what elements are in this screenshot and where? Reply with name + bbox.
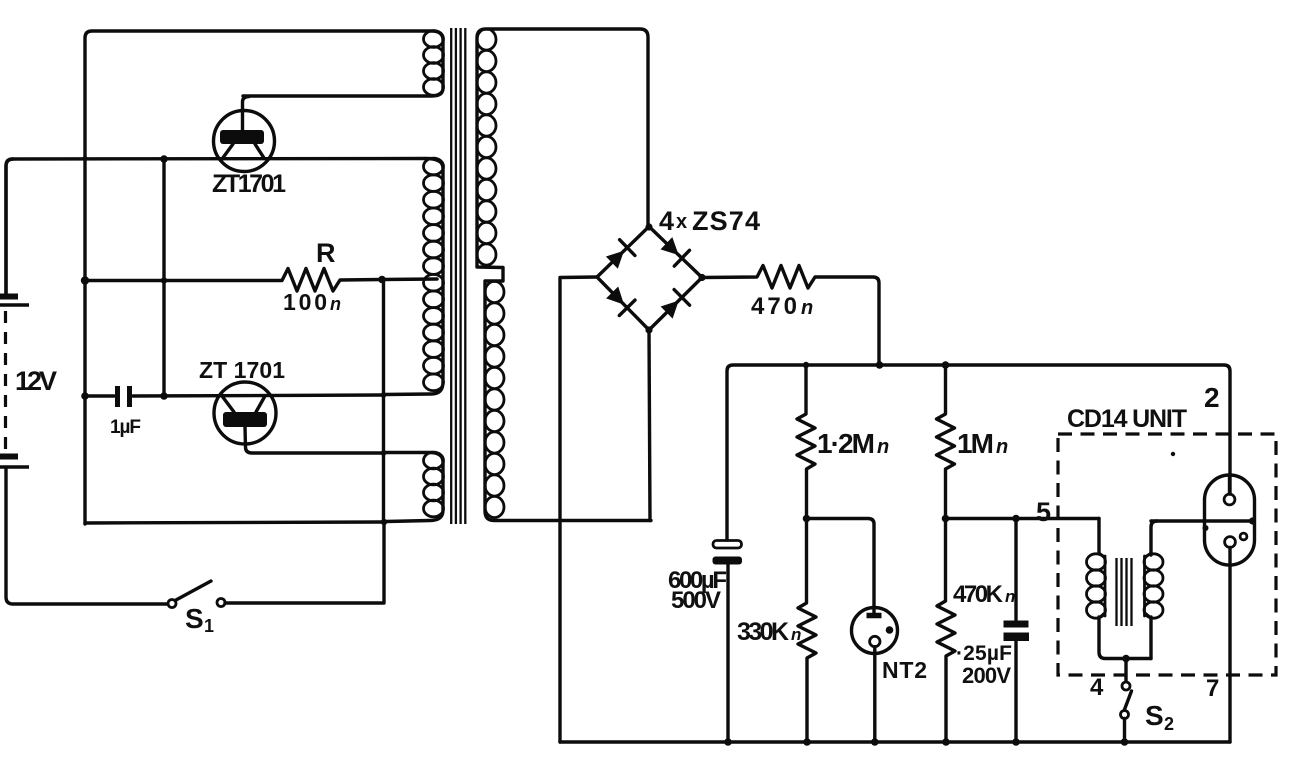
node bridge top vertex <box>645 223 652 230</box>
wire battery rail to C1 <box>85 394 114 397</box>
diode D2 (top-right edge) arrow <box>661 237 679 255</box>
node bottom bus junction at 600uF <box>724 738 732 746</box>
wire base bias vertical x=164 <box>162 159 165 396</box>
node bridge bottom vertex <box>645 326 652 333</box>
svg-text:ZS74: ZS74 <box>692 206 760 236</box>
resistor 1.2M with leads <box>797 365 815 519</box>
capacitor C1 1uF left plate <box>115 386 120 407</box>
resistor 1M with leads <box>937 365 955 519</box>
svg-text:330K: 330K <box>737 618 789 646</box>
svg-text:n: n <box>877 436 889 458</box>
node tap junction R / feedback vertical <box>378 276 386 284</box>
switch S2 blade <box>1125 691 1132 710</box>
battery 12V top lead <box>6 159 13 294</box>
node junction 1.2M top <box>803 362 809 368</box>
node junction 1uF branch <box>81 392 89 400</box>
node dot on tube left wall <box>1203 525 1209 531</box>
transistor Q2 collector leg <box>256 396 265 412</box>
transformer T1 secondary winding loops upper <box>477 29 496 50</box>
node top-left corner junction on battery feed <box>82 156 87 161</box>
transistor Q2 bottom lead <box>245 427 384 453</box>
node junction 470ohm / top bus <box>876 361 884 369</box>
node bottom bus junction at NT2 <box>871 738 879 746</box>
node bridge right vertex <box>698 274 705 281</box>
svg-text:S: S <box>185 603 204 634</box>
wire C2 bottom lead <box>726 564 729 742</box>
decorative speck inside CD14 box <box>1171 452 1175 456</box>
wire C3 bottom lead <box>1014 641 1017 742</box>
wire S1 to riser <box>225 522 384 603</box>
wire trigger transformer primary down lead <box>1097 519 1100 554</box>
capacitor C2 600uF top plate (outline) <box>713 541 742 549</box>
transistor Q1 ZT1701 circle <box>214 111 275 172</box>
wire bridge left vertex to negative rail <box>560 277 597 742</box>
terminal 4 contact circle <box>1122 682 1130 690</box>
node dot on tube right wall <box>1249 517 1256 524</box>
neon NT2 bottom electrode ring <box>870 636 880 646</box>
transformer T1 secondary winding loops lower <box>485 281 504 302</box>
diode D3 (left-bottom edge) cathode tick <box>619 300 635 315</box>
svg-text:S: S <box>1145 700 1164 731</box>
svg-text:·25µF: ·25µF <box>956 642 1012 665</box>
svg-text:ZT 1701: ZT 1701 <box>199 357 285 383</box>
neon NT2 side dot <box>886 626 894 634</box>
transistor Q1 collector leg <box>255 144 264 158</box>
flash tube trigger wire across envelope <box>1151 519 1253 522</box>
wire top rail and primary winding section 1 with exit to Q1 <box>85 31 443 524</box>
svg-text:1: 1 <box>204 616 214 636</box>
switch S1 left contact <box>168 600 176 608</box>
node junction battery rail / R wire <box>81 276 89 284</box>
svg-text:1µF: 1µF <box>110 417 141 438</box>
transistor Q2 ZT1701 circle <box>214 382 276 444</box>
svg-text:470: 470 <box>751 293 797 320</box>
wire feedback vertical x=384 <box>382 280 385 523</box>
transformer T1 core laminations <box>450 28 452 524</box>
svg-text:2: 2 <box>1164 714 1174 734</box>
transistor Q2 base bar <box>223 412 267 427</box>
node bottom bus junction at 330K <box>803 738 811 746</box>
node junction feedback bottom / S1 riser <box>381 519 387 525</box>
transistor Q1 emitter leg <box>222 144 233 159</box>
svg-text:12V: 12V <box>15 366 57 396</box>
battery 12V cell 1 short thick plate <box>0 294 18 300</box>
wire trigger level (node 5) <box>946 517 1100 520</box>
svg-text:4: 4 <box>1090 674 1104 701</box>
svg-text:2: 2 <box>1204 382 1220 413</box>
wire C1 to Q2 top and feedback vertical <box>133 395 384 396</box>
capacitor C3 .25uF bottom plate <box>1004 633 1030 642</box>
trigger transformer T2 right winding <box>1145 553 1151 557</box>
flash tube cathode electrode ring <box>1225 537 1236 548</box>
svg-text:n: n <box>996 436 1008 458</box>
wire primary section3 top tap <box>384 453 443 522</box>
svg-text:ZT1701: ZT1701 <box>212 170 286 198</box>
resistor 470K with leads <box>937 519 955 743</box>
bridge rectifier 4xZS74 diamond <box>597 227 702 331</box>
svg-text:CD14 UNIT: CD14 UNIT <box>1067 405 1187 433</box>
resistor R 100ohm with leads <box>85 269 382 292</box>
trigger transformer T2 left winding <box>1099 553 1105 557</box>
wire NT2 top branch <box>807 519 875 616</box>
svg-text:n: n <box>1005 587 1015 606</box>
wire tap into primary winding <box>382 277 437 281</box>
node junction 1.2M / NT2 branch <box>803 515 811 523</box>
flash tube envelope (capsule) <box>1205 475 1255 565</box>
node bottom bus junction at .25uF <box>1012 738 1020 746</box>
neon NT2 top electrode bar <box>867 613 882 619</box>
wire NT2 bottom lead <box>873 647 876 742</box>
trigger transformer T2 core <box>1115 558 1117 626</box>
switch S1 right contact <box>217 599 225 607</box>
wire bridge bottom vertex to secondary bottom <box>649 330 650 521</box>
node junction base vertical / R wire <box>161 277 167 283</box>
resistor 330K with leads <box>798 519 816 743</box>
wire battery feed to primary section 2 top (y=158) <box>6 159 443 395</box>
flash tube auxiliary small ring <box>1240 533 1247 540</box>
svg-text:7: 7 <box>1206 675 1219 702</box>
wire anode lead from top bus (terminal 2) <box>1228 475 1231 494</box>
svg-text:n: n <box>801 297 813 319</box>
wire cathode lead to bottom bus (terminal 7) <box>1228 547 1231 742</box>
svg-text:5: 5 <box>1036 497 1051 527</box>
diode D3 (left-bottom edge) arrow <box>606 287 624 305</box>
wire S2 to bottom bus <box>1123 719 1126 743</box>
wire T2 right winding top lead to tube trigger <box>1151 521 1157 555</box>
svg-text:4: 4 <box>659 206 674 236</box>
wire oscillator bottom return <box>85 522 384 523</box>
svg-text:n: n <box>791 625 801 644</box>
capacitor C2 600uF bottom plate (solid) <box>713 557 743 565</box>
resistor 470 ohm with leads <box>702 266 879 366</box>
capacitor C1 1uF right plate <box>127 386 132 407</box>
node bottom bus junction at 470K <box>942 738 950 746</box>
battery 12V dashed middle <box>4 311 7 450</box>
transistor Q2 emitter leg <box>222 396 234 412</box>
flash tube anode top electrode ring <box>1224 494 1235 505</box>
svg-text:x: x <box>676 211 687 233</box>
wire negative bottom bus <box>560 740 1230 743</box>
capacitor C3 .25uF top plate <box>1004 621 1029 628</box>
transformer T1 primary winding loops section 2 <box>424 158 444 175</box>
neon tube NT2 envelope <box>852 608 898 654</box>
wire T2 left winding bottom lead <box>1099 617 1151 659</box>
node junction base-line vertical top <box>160 155 168 163</box>
svg-text:470K: 470K <box>953 581 1004 608</box>
diode D4 (bottom-right edge) arrow <box>661 301 679 319</box>
diode D1 (left-top edge) arrow <box>606 251 624 269</box>
node bottom bus junction at S2 <box>1121 738 1129 746</box>
svg-text:1·2M: 1·2M <box>817 428 875 459</box>
node junction feedback / Q2 top wire <box>381 392 387 398</box>
transistor Q1 base bar <box>220 130 264 144</box>
svg-text:500V: 500V <box>671 587 721 614</box>
wire positive top bus <box>727 365 1230 540</box>
svg-text:NT2: NT2 <box>882 657 927 683</box>
svg-text:R: R <box>316 238 336 268</box>
wire common lead to terminal 4 <box>1124 659 1127 682</box>
svg-text:1M: 1M <box>957 428 994 459</box>
node junction 1M top <box>942 361 950 369</box>
CD14 unit dashed enclosure <box>1058 434 1276 675</box>
node junction 1M / 470K / trigger line <box>942 515 950 523</box>
battery 12V cell 1 long thin plate <box>0 303 29 306</box>
node junction T2 windings common <box>1122 655 1130 663</box>
battery bottom lead to S1 <box>6 469 167 604</box>
node junction .25uF top <box>1012 515 1020 523</box>
wire C3 top lead <box>1014 519 1017 621</box>
wire T2 right winding bottom lead <box>1149 617 1152 659</box>
switch S2 lower contact circle <box>1121 711 1129 719</box>
battery 12V cell 2 long thin plate <box>0 465 29 468</box>
node junction base vertical bottom on Q2 wire <box>160 392 168 400</box>
diode D2 (top-right edge) cathode tick <box>674 250 689 266</box>
node junction feedback / Q2 bottom wire <box>381 450 387 456</box>
transformer T1 secondary winding spine with top and bottom exits <box>477 29 651 521</box>
svg-text:100: 100 <box>283 289 327 315</box>
transformer T1 primary winding loops section 3 <box>424 452 444 469</box>
switch S1 blade <box>176 581 211 600</box>
svg-text:200V: 200V <box>962 663 1011 688</box>
transistor Q1 top lead to winding <box>243 97 250 131</box>
transformer T1 primary winding loops section 1 <box>424 31 444 48</box>
battery 12V cell 2 short thick plate <box>0 454 18 460</box>
diode D1 (left-top edge) cathode tick <box>620 240 635 256</box>
diode D4 (bottom-right edge) cathode tick <box>674 290 690 306</box>
svg-text:n: n <box>330 294 341 314</box>
